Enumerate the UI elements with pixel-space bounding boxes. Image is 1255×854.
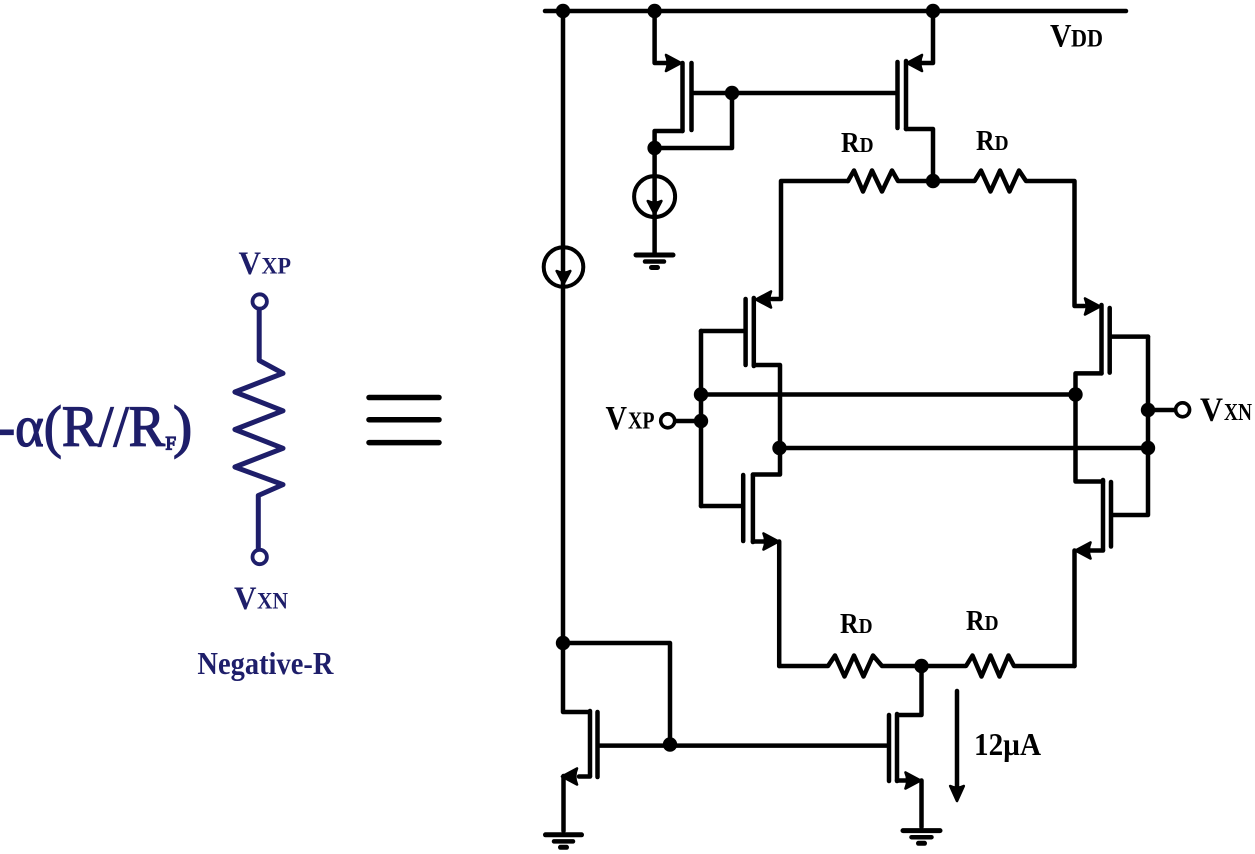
svg-text:V: V — [234, 581, 257, 617]
svg-text:RD: RD — [840, 609, 873, 640]
svg-text:Negative-R: Negative-R — [197, 645, 334, 681]
svg-text:V: V — [606, 400, 628, 437]
svg-text:DD: DD — [1071, 26, 1103, 53]
svg-text:V: V — [1200, 392, 1223, 429]
svg-text:12µA: 12µA — [974, 726, 1041, 762]
svg-text:XP: XP — [262, 254, 292, 280]
svg-text:RD: RD — [966, 606, 999, 637]
svg-text:XN: XN — [1224, 399, 1252, 426]
svg-text:XP: XP — [628, 408, 655, 435]
svg-text:XN: XN — [257, 589, 288, 615]
svg-text:V: V — [239, 246, 262, 282]
svg-text:V: V — [1050, 19, 1072, 55]
svg-text:RD: RD — [841, 128, 874, 159]
svg-text:-α(R//R: -α(R//R — [0, 394, 165, 459]
svg-text:RD: RD — [976, 126, 1009, 157]
svg-text:): ) — [173, 394, 192, 459]
